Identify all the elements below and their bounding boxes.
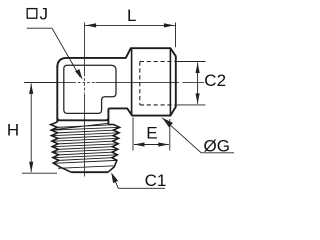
- svg-text:C2: C2: [204, 71, 226, 90]
- thread crest lines: [52, 123, 120, 168]
- dimension E line: [134, 144, 169, 146]
- hidden thread dashed left: [139, 62, 141, 105]
- dimension C2 top extension: [176, 61, 206, 63]
- label square J: [27, 9, 37, 19]
- svg-text:ØG: ØG: [204, 136, 230, 155]
- port boss outline: [64, 65, 116, 113]
- dimension C2 line: [197, 63, 199, 104]
- leader J: [27, 27, 52, 29]
- leader C1: [118, 187, 165, 189]
- dimension L right extension: [175, 23, 177, 48]
- male thread right zigzag: [108, 124, 120, 172]
- dimension E right extension: [169, 119, 171, 151]
- body bottom edge: [57, 118, 108, 121]
- dimension C2 bottom extension: [177, 104, 206, 106]
- svg-text:J: J: [40, 5, 49, 24]
- svg-text:C1: C1: [145, 171, 167, 190]
- svg-text:L: L: [127, 6, 136, 25]
- body outline with hex nut section: [57, 48, 176, 124]
- dimension L line: [85, 24, 176, 26]
- hidden thread dashed bottom: [140, 104, 176, 106]
- dimension H bottom extension: [22, 172, 57, 174]
- wire vertical centerline: [84, 22, 86, 73]
- dimension H top extension: [24, 81, 57, 83]
- dimension E left extension: [132, 118, 134, 151]
- hex face line right: [169, 49, 171, 116]
- dimension H line: [30, 83, 32, 172]
- svg-text:E: E: [146, 123, 157, 142]
- leader diameter G: [162, 118, 201, 153]
- male thread bottom edge: [71, 171, 108, 173]
- hidden thread dashed top: [140, 61, 176, 63]
- wire horizontal centerline: [24, 81, 73, 83]
- body left edge: [56, 66, 58, 122]
- male thread left zigzag: [51, 122, 71, 172]
- hex face line left: [131, 48, 133, 115]
- svg-text:H: H: [7, 120, 19, 139]
